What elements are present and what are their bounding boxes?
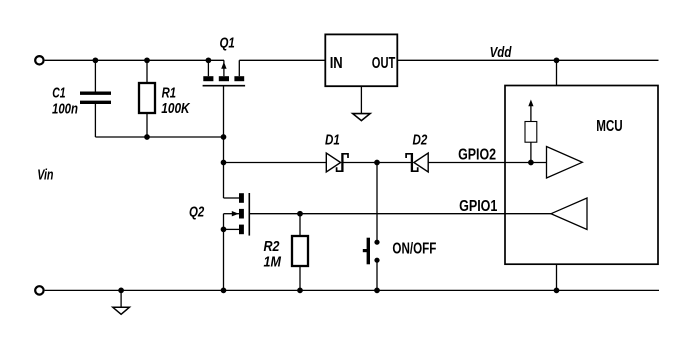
label D1 [325,131,340,148]
svg-text:R1: R1 [162,85,176,102]
label R1 100K [161,85,190,118]
wire gate node to D1 [224,162,327,164]
svg-text:Q2: Q2 [189,204,205,221]
wire D2 anode to MCU buffer [428,162,546,164]
node gate wire junction [221,135,225,139]
node R2 top [298,212,302,216]
node switch bottom [375,288,379,292]
ground on bottom rail [113,290,130,314]
svg-text:1M: 1M [264,253,282,270]
label OUT [372,55,396,72]
label IN [330,55,343,72]
resistor R2 [292,214,308,291]
label C1 100n [52,85,78,118]
node Q1 source [206,58,210,62]
node R1 top [145,58,149,62]
buffer triangle GPIO2 [547,147,583,179]
node pullup GPIO2 [529,160,533,164]
node Q2 source at rail [221,288,225,292]
label GPIO2 [458,147,496,164]
node Q2 source [221,227,225,231]
node Vdd to MCU [554,58,558,62]
transistor Q2 (N-MOSFET) [224,193,250,290]
svg-text:100n: 100n [52,100,78,117]
capacitor C1 [80,60,111,137]
label Q2 [189,204,205,221]
ground below regulator [353,86,370,120]
wire bottom rail [45,289,659,291]
resistor R1 [139,60,155,137]
node ground [119,288,123,292]
wire Q1 gate vertical down [223,86,225,198]
node R2 bottom [298,288,302,292]
label Vin [37,167,53,184]
svg-text:ON/OFF: ON/OFF [392,241,436,258]
wire regulator OUT to top right (Vdd rail) [397,59,658,61]
svg-text:D1: D1 [325,131,340,148]
buffer triangle GPIO1 [551,198,587,230]
wire top rail left [45,59,224,61]
svg-text:Vdd: Vdd [490,44,512,61]
label D2 [413,131,428,148]
node D1-D2 junction [375,160,379,164]
svg-text:GPIO1: GPIO1 [459,198,497,215]
wire Vdd drop to MCU top [556,60,558,85]
label R2 1M [264,238,282,270]
wire D1 cathode to D2 cathode [342,162,412,164]
terminal J2 bottom-left [35,286,43,294]
svg-text:GPIO2: GPIO2 [458,147,496,164]
svg-text:D2: D2 [413,131,428,148]
node D wire at main vertical [221,160,225,164]
node C1 top [93,58,97,62]
svg-text:Q1: Q1 [220,35,235,52]
wire MCU bottom to ground rail [556,264,558,290]
wire Q2 gate to MCU GPIO1 [249,213,551,215]
terminal J1 top-left [35,56,43,64]
voltage regulator U1 box [325,34,397,86]
wire C1/R1 bottom to gate node [95,136,223,138]
diode D1 (schottky, pointing right) [326,153,348,172]
switch ON/OFF (push button) [363,238,380,291]
svg-text:MCU: MCU [596,118,623,135]
MCU box [505,86,658,265]
svg-text:Vin: Vin [37,167,53,184]
wire Q1 drain to regulator [239,59,325,61]
pull-up resistor inside MCU [525,100,537,163]
label GPIO1 [459,198,497,215]
svg-text:IN: IN [330,55,343,72]
transistor Q1 (P-MOSFET) [203,60,246,85]
wire D junction down to switch [376,163,378,243]
svg-text:100K: 100K [161,100,190,117]
svg-text:OUT: OUT [372,55,396,72]
label ON/OFF [392,241,436,258]
node MCU ground [554,288,558,292]
node R1 bottom [145,135,149,139]
label MCU [596,118,623,135]
diode D2 (schottky, pointing left) [406,153,428,172]
svg-text:C1: C1 [52,85,65,102]
label Q1 [220,35,235,52]
label Vdd [490,44,512,61]
